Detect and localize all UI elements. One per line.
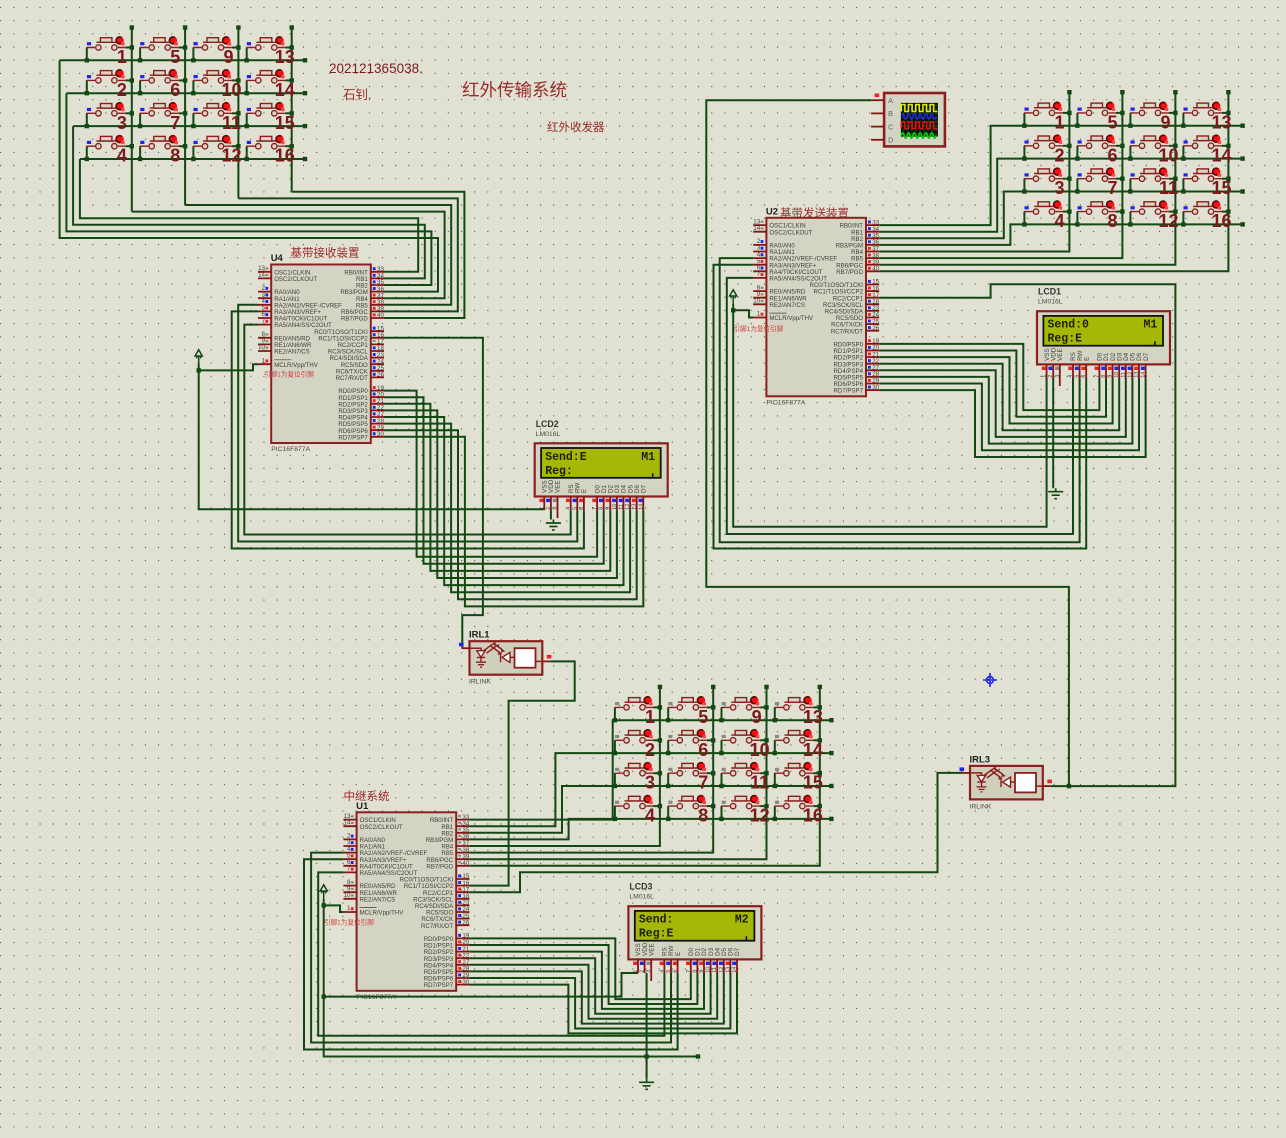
keypad A button 1 row stub bbox=[86, 48, 88, 61]
keypad A button 10 row stub bbox=[192, 80, 194, 93]
junction keypad C btn9 col bbox=[764, 705, 768, 709]
keypad C button 8 row stub bbox=[667, 806, 669, 819]
svg-text:4: 4 bbox=[1054, 211, 1064, 231]
svg-text:IRL1: IRL1 bbox=[469, 630, 490, 641]
svg-text:3: 3 bbox=[1054, 178, 1064, 198]
svg-text:RB7/PGD: RB7/PGD bbox=[426, 863, 453, 870]
keypad A button 11 row stub bbox=[192, 113, 194, 126]
junction keypad A btn8 row bbox=[138, 157, 142, 161]
junction keypad A btn2 row bbox=[85, 91, 89, 95]
keypad A push button 15 bbox=[246, 104, 285, 117]
keypad A row 1 bus end bbox=[303, 58, 307, 62]
junction U2 power node bbox=[731, 308, 735, 312]
keypad B button 15 row stub bbox=[1182, 179, 1184, 192]
keypad A push button 8 bbox=[140, 136, 179, 149]
wire U2 power to MCLR bbox=[733, 310, 753, 317]
junction keypad B btn14 col bbox=[1226, 144, 1230, 148]
keypad A row 1 bus bbox=[60, 59, 305, 61]
junction keypad C btn4 col bbox=[658, 804, 662, 808]
oscilloscope bbox=[884, 93, 945, 146]
junction keypad A btn8 col bbox=[183, 144, 187, 148]
keypad B column 3 top end bbox=[1173, 90, 1177, 94]
junction keypad C btn2 col bbox=[658, 738, 662, 742]
wire LCD1 VDD down to ground bbox=[1052, 378, 1054, 488]
wire IRL1 TXD to U1 RC1 bbox=[469, 661, 574, 885]
keypad A button 9 col stub bbox=[232, 47, 238, 49]
svg-text:Send:0: Send:0 bbox=[1048, 319, 1090, 332]
keypad C button 10 row stub bbox=[721, 740, 723, 753]
keypad B column 1 top end bbox=[1067, 90, 1071, 94]
svg-text:16: 16 bbox=[275, 146, 295, 166]
keypad B button 11 col stub bbox=[1169, 178, 1175, 180]
power terminal near U1 bbox=[320, 885, 327, 899]
junction keypad C btn1 col bbox=[658, 705, 662, 709]
junction keypad B btn4 row bbox=[1022, 222, 1026, 226]
junction keypad C btn5 col bbox=[711, 705, 715, 709]
wire U1 RD4 to LCD3 D4 bbox=[469, 965, 717, 1019]
junction keypad C btn9 row bbox=[719, 718, 723, 722]
wire U4 RD4 to LCD2 D4 bbox=[384, 417, 624, 585]
junction keypad A btn3 row bbox=[85, 124, 89, 128]
svg-text:MCLR/Vpp/THV: MCLR/Vpp/THV bbox=[274, 362, 319, 369]
wire U4 RA2 to LCD2 RW bbox=[238, 305, 577, 542]
wire keypad A col1 to U4 RB4 bbox=[132, 212, 445, 299]
keypad B button 1 row stub bbox=[1023, 113, 1025, 126]
svg-text:MCLR/Vpp/THV: MCLR/Vpp/THV bbox=[360, 910, 405, 917]
junction keypad B btn2 row bbox=[1022, 156, 1026, 160]
svg-text:6: 6 bbox=[698, 740, 708, 760]
keypad A button 5 col stub bbox=[179, 47, 185, 49]
svg-text:RE2/AN7/CS: RE2/AN7/CS bbox=[360, 896, 396, 903]
svg-text:RE2/AN7/CS: RE2/AN7/CS bbox=[274, 349, 310, 356]
keypad A row 2 bus bbox=[66, 92, 305, 94]
junction keypad C btn4 row bbox=[613, 817, 617, 821]
junction keypad C btn11 col bbox=[764, 771, 768, 775]
keypad A button 12 row stub bbox=[192, 146, 194, 159]
keypad A button 6 row stub bbox=[139, 80, 141, 93]
keypad C push button 14 bbox=[774, 731, 813, 744]
keypad A column 4 wire bbox=[291, 28, 293, 192]
junction keypad A btn12 row bbox=[191, 157, 195, 161]
keypad B push button 16 bbox=[1183, 202, 1222, 215]
keypad C column 1 top end bbox=[658, 685, 662, 689]
svg-text:16: 16 bbox=[1211, 211, 1231, 231]
svg-text:5: 5 bbox=[170, 47, 180, 67]
junction keypad A btn10 row bbox=[191, 91, 195, 95]
keypad C button 9 col stub bbox=[760, 706, 766, 708]
keypad A row 2 bus end bbox=[303, 91, 307, 95]
svg-text:2: 2 bbox=[117, 80, 127, 100]
keypad B push button 4 bbox=[1024, 202, 1063, 215]
keypad A push button 11 bbox=[193, 104, 232, 117]
keypad A button 4 row stub bbox=[86, 146, 88, 159]
keypad A button 11 col stub bbox=[232, 112, 238, 114]
junction keypad A btn6 row bbox=[138, 91, 142, 95]
keypad A button 3 row stub bbox=[86, 113, 88, 126]
wire keypad A row2 to U4 RB2 bbox=[66, 93, 431, 285]
svg-text:13: 13 bbox=[803, 707, 823, 727]
keypad B push button 1 bbox=[1024, 103, 1063, 116]
keypad C push button 7 bbox=[668, 763, 707, 776]
power terminal near U2 bbox=[730, 290, 737, 304]
keypad C button 2 row stub bbox=[614, 740, 616, 753]
keypad A button 4 col stub bbox=[125, 145, 131, 147]
keypad B button 6 col stub bbox=[1116, 145, 1122, 147]
junction keypad A btn14 row bbox=[245, 91, 249, 95]
junction keypad B btn2 col bbox=[1067, 144, 1071, 148]
svg-text:基带接收装置: 基带接收装置 bbox=[291, 246, 360, 260]
keypad B button 12 row stub bbox=[1129, 212, 1131, 225]
junction keypad A btn16 row bbox=[245, 157, 249, 161]
svg-text:M1: M1 bbox=[1144, 319, 1158, 332]
junction keypad A btn4 row bbox=[85, 157, 89, 161]
keypad A button 15 col stub bbox=[285, 112, 291, 114]
junction keypad B btn8 row bbox=[1075, 222, 1079, 226]
keypad B push button 13 bbox=[1183, 103, 1222, 116]
wire IRL3 TXD to U2 RC2 bbox=[879, 284, 1175, 786]
keypad A push button 4 bbox=[86, 136, 125, 149]
junction keypad C btn2 row bbox=[613, 751, 617, 755]
keypad A button 3 col stub bbox=[125, 112, 131, 114]
svg-text:B: B bbox=[888, 109, 893, 118]
IRL3 right pin bbox=[1043, 785, 1051, 787]
junction keypad C btn8 row bbox=[666, 817, 670, 821]
keypad C button 4 row stub bbox=[614, 806, 616, 819]
keypad B button 15 col stub bbox=[1222, 178, 1228, 180]
wire U2 RD0 to LCD1 D0 bbox=[879, 344, 1099, 410]
wire U4 RD3 to LCD2 D3 bbox=[384, 410, 617, 578]
junction keypad C btn16 col bbox=[818, 804, 822, 808]
junction keypad A btn7 row bbox=[138, 124, 142, 128]
svg-text:15: 15 bbox=[275, 113, 295, 133]
junction IRL3 TXD node bbox=[1067, 784, 1071, 788]
keypad C push button 4 bbox=[615, 796, 654, 809]
junction keypad A btn1 col bbox=[130, 45, 134, 49]
svg-text:Send:E: Send:E bbox=[545, 451, 587, 464]
wire U2 RD1 to LCD1 D1 bbox=[879, 351, 1106, 417]
junction keypad B btn5 col bbox=[1120, 111, 1124, 115]
wire keypad B row2 bus to U2 RB1 bbox=[879, 159, 1242, 232]
keypad A row 3 bus end bbox=[303, 124, 307, 128]
wire keypad B row4 bus to U2 RB3 bbox=[879, 224, 1242, 245]
keypad C push button 15 bbox=[774, 763, 813, 776]
wire U1 RD6 to LCD3 D6 bbox=[469, 973, 730, 1029]
keypad A column 1 wire bbox=[131, 28, 133, 212]
junction keypad B btn7 col bbox=[1120, 177, 1124, 181]
keypad C column 4 top end bbox=[818, 685, 822, 689]
wire power line to LCD3 VSS bbox=[324, 973, 638, 997]
junction keypad A btn14 col bbox=[290, 78, 294, 82]
wire U1 RD3 to LCD3 D3 bbox=[469, 958, 710, 1014]
keypad A push button 5 bbox=[140, 38, 179, 51]
junction keypad C btn5 row bbox=[666, 718, 670, 722]
junction keypad C btn1 row bbox=[613, 718, 617, 722]
junction keypad B btn9 col bbox=[1173, 111, 1177, 115]
wire U1 RA5 to LCD3 RS bbox=[318, 872, 664, 1035]
svg-text:11: 11 bbox=[222, 113, 241, 133]
wire U1 RD5 to LCD3 D5 bbox=[469, 971, 723, 1023]
keypad C button 5 row stub bbox=[667, 707, 669, 720]
svg-text:LM016L: LM016L bbox=[536, 431, 561, 438]
keypad C button 14 col stub bbox=[813, 739, 819, 741]
keypad A button 7 col stub bbox=[179, 112, 185, 114]
svg-text:9: 9 bbox=[223, 47, 233, 67]
svg-text:红外收发器: 红外收发器 bbox=[547, 120, 605, 134]
keypad C push button 5 bbox=[668, 698, 707, 711]
svg-text:A: A bbox=[888, 96, 893, 105]
svg-text:15: 15 bbox=[1211, 178, 1231, 198]
wire U2 RD2 to LCD1 D2 bbox=[879, 357, 1112, 423]
wire LCD2 VDD to ground bbox=[550, 510, 552, 519]
microcontroller U4 (PIC16F877A) bbox=[271, 265, 371, 444]
keypad B row 2 bus end bbox=[1240, 156, 1244, 160]
svg-text:5: 5 bbox=[1107, 112, 1117, 132]
junction keypad B btn15 row bbox=[1181, 189, 1185, 193]
junction keypad B btn11 col bbox=[1173, 177, 1177, 181]
svg-text:M2: M2 bbox=[735, 914, 749, 927]
keypad C push button 1 bbox=[615, 698, 654, 711]
junction keypad B btn15 col bbox=[1226, 177, 1230, 181]
svg-text:RC7/RX/DT: RC7/RX/DT bbox=[336, 375, 368, 382]
keypad A row 4 bus bbox=[80, 158, 305, 160]
svg-text:6: 6 bbox=[170, 80, 180, 100]
junction keypad B btn10 col bbox=[1173, 144, 1177, 148]
svg-text:IRLINK: IRLINK bbox=[469, 679, 491, 686]
svg-text:1: 1 bbox=[645, 707, 655, 727]
keypad A button 16 row stub bbox=[246, 146, 248, 159]
junction keypad C btn6 col bbox=[711, 738, 715, 742]
keypad B push button 10 bbox=[1130, 136, 1169, 149]
junction keypad B btn16 row bbox=[1181, 222, 1185, 226]
keypad A button 8 col stub bbox=[179, 145, 185, 147]
keypad B button 9 row stub bbox=[1129, 113, 1131, 126]
svg-text:14: 14 bbox=[275, 80, 295, 100]
junction keypad A btn16 col bbox=[290, 144, 294, 148]
junction keypad B btn13 col bbox=[1226, 111, 1230, 115]
oscilloscope pin A state square bbox=[875, 94, 880, 98]
junction keypad A btn15 row bbox=[245, 124, 249, 128]
keypad B button 12 col stub bbox=[1169, 211, 1175, 213]
keypad A push button 10 bbox=[193, 71, 232, 84]
keypad C button 11 row stub bbox=[721, 773, 723, 786]
optocoupler IRL3 body (IRLINK) bbox=[970, 766, 1043, 800]
junction keypad B btn14 row bbox=[1181, 156, 1185, 160]
junction keypad B btn13 row bbox=[1181, 124, 1185, 128]
wire keypad C row2 bus to U1 RB1 bbox=[469, 753, 831, 826]
svg-text:14: 14 bbox=[1211, 145, 1231, 165]
keypad B push button 5 bbox=[1077, 103, 1116, 116]
junction keypad A btn13 col bbox=[290, 45, 294, 49]
junction keypad A btn13 row bbox=[245, 58, 249, 62]
keypad B button 6 row stub bbox=[1076, 146, 1078, 159]
svg-text:RE2/AN7/CS: RE2/AN7/CS bbox=[769, 302, 805, 309]
svg-text:11: 11 bbox=[750, 773, 769, 793]
keypad B button 4 col stub bbox=[1063, 211, 1069, 213]
svg-text:OSC2/CLKOUT: OSC2/CLKOUT bbox=[360, 824, 403, 831]
svg-text:MCLR/Vpp/THV: MCLR/Vpp/THV bbox=[769, 315, 814, 322]
junction keypad B btn8 col bbox=[1120, 209, 1124, 213]
svg-text:PIC16F877A: PIC16F877A bbox=[766, 399, 805, 406]
svg-text:13: 13 bbox=[275, 47, 295, 67]
keypad C push button 8 bbox=[668, 796, 707, 809]
wire U1 power stem bbox=[323, 899, 325, 905]
wire keypad C col3 to U1 RB6 bbox=[469, 687, 766, 859]
svg-text:1: 1 bbox=[1054, 112, 1064, 132]
wire U1 RA2 to LCD3 RW bbox=[311, 853, 671, 1043]
LCD LCD3 body (LM016L) bbox=[628, 906, 761, 959]
wire keypad A col2 to U4 RB5 bbox=[185, 205, 451, 305]
wire U2 RA2 to LCD1 RW bbox=[720, 258, 1080, 542]
junction keypad A btn15 col bbox=[290, 111, 294, 115]
LCD LCD1 body (LM016L) bbox=[1037, 311, 1170, 364]
junction keypad A btn1 row bbox=[85, 58, 89, 62]
keypad A row 3 bus bbox=[73, 125, 305, 127]
junction keypad C btn12 row bbox=[719, 817, 723, 821]
keypad C button 3 col stub bbox=[654, 772, 660, 774]
svg-text:U1: U1 bbox=[356, 801, 369, 812]
optocoupler IRL1 body (IRLINK) bbox=[470, 641, 543, 675]
svg-text:D7: D7 bbox=[734, 947, 741, 956]
keypad A column 2 wire bbox=[184, 28, 186, 206]
svg-text:RB7/PGD: RB7/PGD bbox=[836, 269, 863, 276]
keypad A push button 14 bbox=[246, 71, 285, 84]
junction keypad C btn11 row bbox=[719, 784, 723, 788]
keypad B push button 12 bbox=[1130, 202, 1169, 215]
keypad B button 13 row stub bbox=[1182, 113, 1184, 126]
junction keypad B btn11 row bbox=[1128, 189, 1132, 193]
keypad A button 12 col stub bbox=[232, 145, 238, 147]
ground below LCD3 bbox=[639, 1079, 654, 1090]
svg-text:引脚1为复位引脚: 引脚1为复位引脚 bbox=[264, 370, 314, 379]
svg-text:15: 15 bbox=[803, 773, 823, 793]
svg-text:LM016L: LM016L bbox=[1038, 299, 1063, 306]
wire keypad A row1 to U4 RB3 bbox=[60, 60, 438, 291]
svg-text:7: 7 bbox=[1107, 178, 1117, 198]
keypad B row 4 bus end bbox=[1240, 222, 1244, 226]
keypad A column 1 top end bbox=[130, 25, 134, 29]
keypad C button 14 row stub bbox=[774, 740, 776, 753]
keypad A button 14 row stub bbox=[246, 80, 248, 93]
keypad A button 16 col stub bbox=[285, 145, 291, 147]
svg-text:1: 1 bbox=[117, 47, 127, 67]
keypad C button 11 col stub bbox=[760, 772, 766, 774]
keypad A push button 13 bbox=[246, 38, 285, 51]
keypad A button 7 row stub bbox=[139, 113, 141, 126]
ground below LCD2 bbox=[546, 520, 561, 531]
junction keypad C btn15 col bbox=[818, 771, 822, 775]
junction U1 power node bbox=[322, 903, 326, 907]
wire keypad A col4 to U4 RB7 bbox=[292, 192, 465, 318]
keypad A row 4 bus end bbox=[303, 157, 307, 161]
keypad C column 2 top end bbox=[711, 685, 715, 689]
junction keypad B btn12 row bbox=[1128, 222, 1132, 226]
keypad A button 5 row stub bbox=[139, 48, 141, 61]
junction keypad B btn5 row bbox=[1075, 124, 1079, 128]
svg-text:12: 12 bbox=[221, 146, 241, 166]
keypad A button 8 row stub bbox=[139, 146, 141, 159]
keypad B push button 14 bbox=[1183, 136, 1222, 149]
svg-text:12: 12 bbox=[1158, 211, 1178, 231]
svg-text:C: C bbox=[888, 122, 893, 131]
keypad B button 16 col stub bbox=[1222, 211, 1228, 213]
wire keypad C row3 bus to U1 RB2 bbox=[469, 786, 831, 833]
keypad C push button 13 bbox=[774, 698, 813, 711]
keypad C push button 3 bbox=[615, 763, 654, 776]
keypad A button 2 col stub bbox=[125, 79, 131, 81]
junction keypad A btn7 col bbox=[183, 111, 187, 115]
wire keypad B row3 bus to U2 RB2 bbox=[879, 192, 1242, 239]
wire U4 RD1 to LCD2 D1 bbox=[384, 397, 604, 564]
svg-text:LCD1: LCD1 bbox=[1038, 287, 1061, 297]
wire keypad C col2 to U1 RB5 bbox=[469, 687, 713, 853]
svg-text:Reg:E: Reg:E bbox=[639, 928, 674, 941]
keypad C button 6 col stub bbox=[707, 739, 713, 741]
svg-text:引脚1为复位引脚: 引脚1为复位引脚 bbox=[734, 324, 784, 333]
svg-text:LCD2: LCD2 bbox=[536, 419, 559, 429]
svg-text:8: 8 bbox=[698, 806, 708, 826]
microcontroller U2 (PIC16F877A) bbox=[766, 218, 866, 396]
wire U2 power stem bbox=[732, 304, 734, 310]
keypad C button 5 col stub bbox=[707, 706, 713, 708]
keypad A button 10 col stub bbox=[232, 79, 238, 81]
junction keypad C btn3 col bbox=[658, 771, 662, 775]
wire keypad B row1 bus to U2 RB0 bbox=[879, 126, 1242, 225]
svg-text:7: 7 bbox=[170, 113, 180, 133]
junction keypad B btn12 col bbox=[1173, 209, 1177, 213]
keypad B button 13 col stub bbox=[1222, 112, 1228, 114]
junction keypad C btn7 col bbox=[711, 771, 715, 775]
junction keypad A btn5 col bbox=[183, 45, 187, 49]
wire U1 RD1 to LCD3 D1 bbox=[469, 945, 697, 1004]
IRL3 left pin bbox=[962, 772, 970, 774]
wire U4 power node to LCD2 VSS bbox=[199, 370, 545, 509]
wire U2 RA5 to LCD1 RS bbox=[727, 278, 1073, 534]
keypad C button 7 col stub bbox=[707, 772, 713, 774]
junction keypad C btn15 row bbox=[773, 784, 777, 788]
svg-text:LCD3: LCD3 bbox=[629, 882, 652, 892]
wire U4 RC1 to IRL1 RXD bbox=[384, 338, 483, 648]
keypad A push button 7 bbox=[140, 104, 179, 117]
power terminal near U4 bbox=[195, 350, 202, 364]
wire U4 power to MCLR bbox=[199, 364, 258, 370]
keypad B button 7 row stub bbox=[1076, 179, 1078, 192]
svg-text:D7: D7 bbox=[641, 484, 648, 493]
svg-text:OSC2/CLKOUT: OSC2/CLKOUT bbox=[274, 276, 317, 283]
keypad C button 1 row stub bbox=[614, 707, 616, 720]
keypad B button 4 row stub bbox=[1023, 212, 1025, 225]
keypad B push button 2 bbox=[1024, 136, 1063, 149]
junction keypad A btn11 row bbox=[191, 124, 195, 128]
keypad C button 9 row stub bbox=[721, 707, 723, 720]
keypad C button 15 row stub bbox=[774, 773, 776, 786]
wire U2 power node to LCD1 VSS bbox=[733, 310, 1046, 527]
keypad A push button 1 bbox=[86, 38, 125, 51]
wire U1 RD0 to LCD3 D0 bbox=[469, 938, 690, 999]
wire U2 RD4 to LCD1 D4 bbox=[879, 370, 1126, 437]
svg-text:Send:: Send: bbox=[639, 914, 674, 927]
junction keypad A btn3 col bbox=[130, 111, 134, 115]
wire U2 RD7 to LCD1 D7 bbox=[879, 378, 1145, 457]
svg-text:Reg:E: Reg:E bbox=[1048, 333, 1083, 346]
svg-text:M1: M1 bbox=[641, 451, 655, 464]
junction keypad A btn9 col bbox=[236, 45, 240, 49]
junction keypad C btn10 col bbox=[764, 738, 768, 742]
keypad A button 13 row stub bbox=[246, 48, 248, 61]
keypad B button 7 col stub bbox=[1116, 178, 1122, 180]
junction keypad B btn7 row bbox=[1075, 189, 1079, 193]
keypad B row 3 bus end bbox=[1240, 189, 1244, 193]
keypad B push button 11 bbox=[1130, 169, 1169, 182]
